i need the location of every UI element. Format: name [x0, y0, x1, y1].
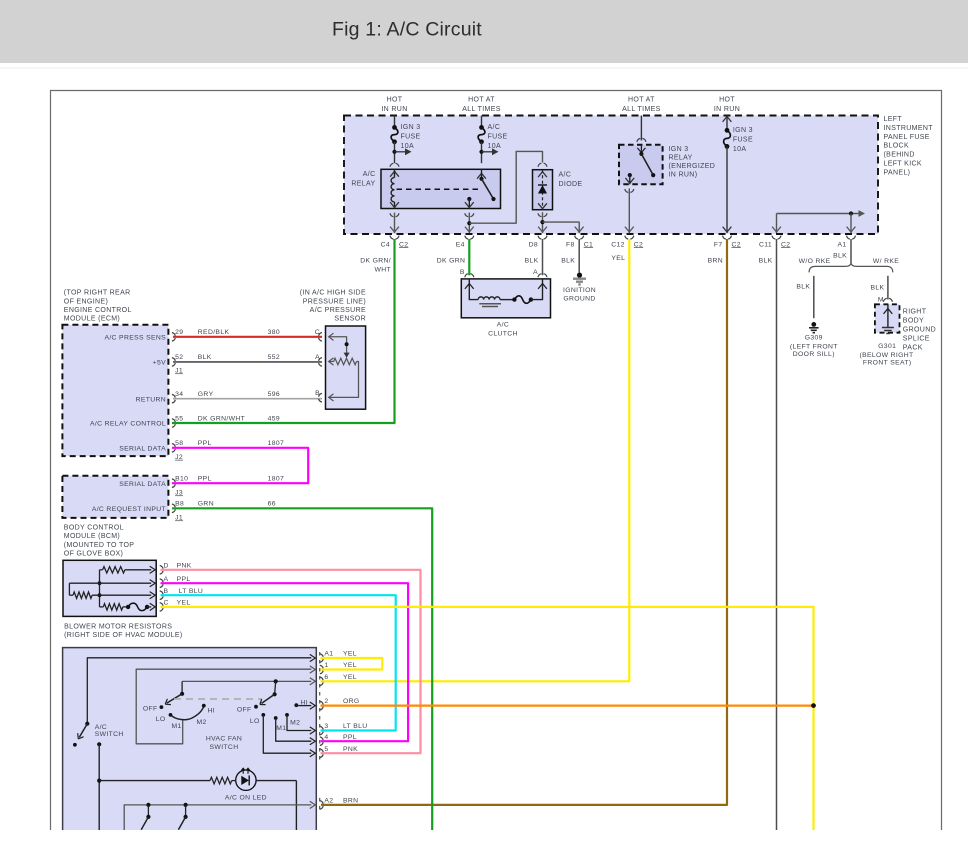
- svg-text:6: 6: [324, 674, 328, 681]
- wire BLK from C11 down (off page): [776, 239, 778, 830]
- svg-text:HI: HI: [208, 707, 216, 714]
- svg-text:10A: 10A: [733, 146, 747, 153]
- svg-text:IGN 3: IGN 3: [733, 127, 753, 134]
- svg-text:F7: F7: [714, 241, 723, 248]
- wire to splice pack: [887, 276, 889, 300]
- defog switch 1 (partial): [141, 803, 150, 830]
- engine control module ECM (dashed box): [62, 325, 168, 456]
- splice pack internal wire: [884, 304, 893, 328]
- svg-text:G309: G309: [805, 335, 823, 342]
- svg-text:1807: 1807: [268, 476, 285, 483]
- node junction E4 to diode branch: [467, 221, 471, 225]
- mechanical link dashed: [174, 698, 262, 700]
- A/C pressure sensor box: [326, 326, 366, 409]
- wire YEL blower C down right side: [161, 607, 814, 830]
- svg-text:MODULE (BCM): MODULE (BCM): [64, 533, 120, 540]
- svg-text:PNK: PNK: [343, 746, 358, 753]
- A/C relay coil: [390, 169, 399, 208]
- svg-text:A: A: [164, 576, 169, 583]
- svg-text:RED/BLK: RED/BLK: [198, 329, 230, 336]
- svg-text:1807: 1807: [268, 440, 285, 447]
- ground G309: [790, 322, 838, 358]
- wire A1 BLK stub: [850, 239, 852, 263]
- svg-text:WHT: WHT: [374, 266, 391, 273]
- wire A1 inside fuse block: [847, 214, 856, 234]
- svg-text:58: 58: [175, 440, 183, 447]
- blower pin labels: [164, 562, 204, 606]
- svg-text:B8: B8: [175, 501, 184, 508]
- svg-text:BLK: BLK: [870, 284, 884, 291]
- svg-text:DIODE: DIODE: [559, 181, 583, 188]
- svg-text:A/C ON LED: A/C ON LED: [225, 795, 267, 802]
- fan switch 1 (left): [160, 681, 206, 719]
- svg-text:ALL TIMES: ALL TIMES: [622, 106, 661, 113]
- fan switch bus to pin 6: [182, 678, 315, 685]
- svg-text:YEL: YEL: [343, 674, 357, 681]
- svg-text:552: 552: [268, 354, 280, 361]
- fan switch 2 position labels: [237, 700, 308, 733]
- svg-text:GRN: GRN: [198, 501, 214, 508]
- svg-text:(IN A/C HIGH SIDE: (IN A/C HIGH SIDE: [300, 290, 366, 297]
- node junction D8 to F8 branch: [540, 220, 544, 224]
- svg-text:BODY CONTROL: BODY CONTROL: [64, 525, 124, 532]
- svg-text:4: 4: [324, 734, 328, 741]
- ECM pin 52 +5V + wire BLK 552: [153, 354, 322, 374]
- svg-text:YEL: YEL: [343, 651, 357, 658]
- svg-text:OFF: OFF: [237, 707, 252, 714]
- svg-text:HOT: HOT: [719, 97, 735, 104]
- HVAC internal wire to pin A1: [87, 654, 315, 723]
- svg-text:66: 66: [268, 501, 276, 508]
- svg-text:W/O RKE: W/O RKE: [799, 258, 831, 265]
- wire LT BLU blower B to HVAC pin 3: [161, 595, 396, 730]
- defog switch 2 (partial): [178, 803, 187, 830]
- svg-text:PRESSURE LINE): PRESSURE LINE): [303, 298, 366, 305]
- ECM pin 58 SERIAL DATA + wire PPL 1807: [119, 440, 284, 461]
- svg-text:380: 380: [268, 329, 280, 336]
- svg-text:(TOP RIGHT REAR: (TOP RIGHT REAR: [64, 290, 131, 297]
- svg-text:SERIAL DATA: SERIAL DATA: [119, 445, 166, 452]
- A/C switch: [73, 722, 124, 747]
- svg-text:ALL TIMES: ALL TIMES: [462, 106, 501, 113]
- svg-text:A2: A2: [324, 798, 333, 805]
- ECM location label: [64, 290, 132, 323]
- svg-text:DK GRN: DK GRN: [437, 257, 466, 264]
- svg-text:LEFT: LEFT: [884, 116, 903, 123]
- svg-text:LO: LO: [156, 716, 166, 723]
- svg-text:W/ RKE: W/ RKE: [873, 258, 899, 265]
- svg-text:RETURN: RETURN: [136, 396, 166, 403]
- svg-text:(RIGHT SIDE OF HVAC MODULE): (RIGHT SIDE OF HVAC MODULE): [64, 632, 182, 639]
- svg-text:FUSE: FUSE: [401, 134, 421, 141]
- HVAC pin labels: [324, 651, 367, 805]
- ECM pin 34 RETURN + wire GRY 596: [136, 391, 322, 403]
- wire PNK blower D to HVAC pin 5: [161, 570, 421, 753]
- svg-text:3: 3: [324, 723, 328, 730]
- svg-text:(MOUNTED TO TOP: (MOUNTED TO TOP: [64, 542, 134, 549]
- fuse F3 IGN 3 FUSE 10A (right): [723, 116, 753, 234]
- svg-text:BLK: BLK: [759, 257, 773, 264]
- svg-text:LT BLU: LT BLU: [179, 588, 204, 595]
- right body ground splice pack (dashed box): [875, 304, 900, 332]
- svg-text:BODY: BODY: [903, 317, 924, 324]
- svg-text:LO: LO: [250, 718, 260, 725]
- svg-text:PPL: PPL: [198, 440, 212, 447]
- svg-text:IN RUN: IN RUN: [714, 106, 740, 113]
- A/C relay switch: [477, 169, 496, 201]
- fan switch 1 position labels: [143, 706, 215, 731]
- ignition ground G2: [563, 273, 596, 303]
- ECM pin 29 A/C PRESS SENS + wire RED/BLK 380: [104, 329, 322, 341]
- lower sub-switch box and wire to pin A2: [124, 801, 315, 830]
- svg-text:HVAC FAN: HVAC FAN: [206, 735, 242, 742]
- blower resistor pin connector arcs: [160, 566, 163, 569]
- svg-text:OFF: OFF: [143, 706, 158, 713]
- svg-text:C12: C12: [611, 241, 625, 248]
- HVAC control head box: [63, 648, 317, 832]
- fan switch frame to pin 1: [136, 666, 315, 744]
- A/C clutch coil circuit: [465, 279, 547, 307]
- wire DK GRN/WHT from C4 to ECM pin 55: [172, 239, 395, 423]
- svg-text:M2: M2: [197, 719, 207, 726]
- svg-text:C2: C2: [732, 241, 741, 248]
- wire YEL loop pin A1 to pin 1: [321, 658, 383, 670]
- svg-text:29: 29: [175, 329, 183, 336]
- svg-text:FRONT SEAT): FRONT SEAT): [863, 359, 912, 366]
- svg-text:PPL: PPL: [198, 476, 212, 483]
- svg-text:PNK: PNK: [177, 562, 192, 569]
- wire HOT AT ALL TIMES into IGN 3 relay: [640, 116, 642, 141]
- fuse block name label: [884, 116, 934, 176]
- blower resistors name label: [64, 623, 182, 639]
- svg-text:DK GRN/WHT: DK GRN/WHT: [198, 415, 245, 422]
- svg-text:J2: J2: [175, 454, 183, 461]
- IGN 3 relay output pin: [625, 173, 634, 184]
- IGN 3 relay top connector arc: [637, 138, 640, 142]
- svg-text:RIGHT: RIGHT: [903, 308, 927, 315]
- svg-text:B: B: [164, 588, 169, 595]
- svg-text:PANEL FUSE: PANEL FUSE: [884, 134, 930, 141]
- svg-text:FUSE: FUSE: [733, 137, 753, 144]
- svg-text:D: D: [164, 562, 169, 569]
- svg-text:IN RUN: IN RUN: [381, 106, 407, 113]
- fuse F2 A/C FUSE 10A: [478, 116, 507, 164]
- svg-text:B10: B10: [175, 476, 188, 483]
- wire from relay output to diode top: [469, 151, 542, 223]
- svg-text:C4: C4: [381, 241, 390, 248]
- svg-text:FUSE: FUSE: [488, 134, 508, 141]
- connector arcs under fuse block: [396, 236, 399, 240]
- A/C relay switch output pin: [465, 197, 474, 209]
- svg-text:M: M: [878, 296, 884, 303]
- clutch connector arcs: [465, 274, 468, 278]
- svg-text:ORG: ORG: [343, 698, 360, 705]
- svg-text:OF GLOVE BOX): OF GLOVE BOX): [64, 551, 123, 558]
- svg-text:5: 5: [324, 746, 328, 753]
- svg-text:C2: C2: [634, 241, 643, 248]
- IGN 3 relay K1 (dashed box): [619, 145, 715, 185]
- svg-text:A/C: A/C: [488, 124, 501, 131]
- splice pack name label: [903, 308, 936, 351]
- svg-text:HOT AT: HOT AT: [468, 97, 495, 104]
- svg-text:BRN: BRN: [343, 798, 358, 805]
- wire branch to F8: [543, 222, 584, 233]
- svg-text:HOT: HOT: [387, 97, 403, 104]
- svg-text:G301: G301: [878, 343, 896, 350]
- sensor connector arcs: [319, 338, 322, 341]
- svg-text:RELAY: RELAY: [351, 181, 375, 188]
- BCM location label: [64, 525, 134, 558]
- A/C on LED branch wire: [97, 742, 210, 830]
- svg-text:BLK: BLK: [833, 252, 847, 259]
- svg-text:GROUND: GROUND: [563, 296, 595, 303]
- svg-text:BLK: BLK: [796, 284, 810, 291]
- svg-text:A1: A1: [837, 241, 846, 248]
- wire ORG HVAC pin 2 to YEL junction: [321, 704, 814, 706]
- fan switch HI contact to pin 2: [296, 702, 315, 709]
- svg-text:(LEFT FRONT: (LEFT FRONT: [790, 344, 838, 351]
- body control module BCM (dashed box): [62, 476, 168, 518]
- IGN 3 relay switch: [637, 145, 655, 178]
- ground G301: [859, 328, 913, 367]
- svg-text:M2: M2: [290, 720, 300, 727]
- svg-text:ENGINE CONTROL: ENGINE CONTROL: [64, 307, 132, 314]
- svg-text:PANEL): PANEL): [884, 169, 911, 176]
- A/C relay coil pin connector: [390, 163, 393, 167]
- svg-text:GROUND: GROUND: [903, 326, 936, 333]
- left instrument panel fuse block (dashed box): [344, 116, 878, 235]
- svg-text:(ENERGIZED: (ENERGIZED: [669, 163, 716, 170]
- wire GRN 66 from BCM down (off page): [172, 508, 432, 830]
- svg-text:C2: C2: [781, 241, 790, 248]
- svg-text:C2: C2: [399, 241, 408, 248]
- LED series resistor: [210, 777, 232, 784]
- A/C relay dashed actuation link: [397, 188, 481, 190]
- svg-text:+5V: +5V: [153, 360, 166, 367]
- svg-text:BLK: BLK: [525, 257, 539, 264]
- svg-text:J1: J1: [175, 367, 183, 374]
- svg-text:OF ENGINE): OF ENGINE): [64, 298, 108, 305]
- svg-text:IGN 3: IGN 3: [401, 124, 421, 131]
- A/C clutch box: [461, 279, 550, 318]
- svg-text:C: C: [164, 600, 169, 607]
- A/C diode D1 box: [533, 170, 583, 210]
- svg-text:C11: C11: [759, 241, 772, 248]
- svg-text:YEL: YEL: [343, 662, 357, 669]
- svg-text:BRN: BRN: [708, 257, 723, 264]
- svg-text:F8: F8: [566, 241, 575, 248]
- BCM pin B10 SERIAL DATA + wire PPL 1807: [119, 476, 284, 497]
- svg-text:BLOWER MOTOR RESISTORS: BLOWER MOTOR RESISTORS: [64, 623, 172, 630]
- svg-text:GRY: GRY: [198, 391, 214, 398]
- IGN 3 relay bottom connector arc: [630, 189, 633, 193]
- ECM pin 55 A/C RELAY CONTROL + wire DK GRN/WHT 459: [90, 415, 280, 427]
- wire D8 inside fuse block: [538, 212, 547, 233]
- svg-text:LT BLU: LT BLU: [343, 723, 368, 730]
- svg-text:A/C PRESS SENS: A/C PRESS SENS: [104, 334, 166, 341]
- splice pack connector arc: [883, 298, 886, 302]
- pressure sensor location label: [300, 290, 366, 323]
- wire BLK from D8 to A/C clutch pin A: [542, 239, 544, 275]
- svg-text:A/C REQUEST INPUT: A/C REQUEST INPUT: [92, 506, 166, 513]
- wire YEL from C12 to HVAC pin 6: [321, 239, 630, 681]
- BCM pin B8 A/C REQUEST INPUT + wire GRN 66: [92, 501, 276, 522]
- svg-text:YEL: YEL: [177, 600, 191, 607]
- wire C4 inside fuse block: [390, 213, 399, 233]
- svg-text:BLK: BLK: [561, 257, 575, 264]
- svg-text:A/C: A/C: [497, 322, 509, 329]
- svg-text:HOT AT: HOT AT: [628, 97, 655, 104]
- bus wire to C11 and A1: [777, 210, 866, 217]
- svg-text:IGNITION: IGNITION: [563, 287, 596, 294]
- wire BRN from F7 to HVAC pin A2: [321, 239, 727, 805]
- svg-text:A: A: [533, 269, 538, 276]
- svg-text:PACK: PACK: [903, 344, 923, 351]
- svg-text:RELAY: RELAY: [669, 155, 693, 162]
- svg-text:INSTRUMENT: INSTRUMENT: [884, 125, 934, 132]
- wire DK GRN from E4 to A/C clutch pin B: [468, 239, 470, 275]
- svg-text:A/C RELAY CONTROL: A/C RELAY CONTROL: [90, 421, 166, 428]
- svg-text:10A: 10A: [488, 143, 502, 150]
- svg-text:A/C: A/C: [559, 172, 572, 179]
- wire to G309: [813, 276, 815, 318]
- svg-text:SENSOR: SENSOR: [334, 316, 366, 323]
- svg-text:(BEHIND: (BEHIND: [884, 152, 915, 159]
- svg-text:BLK: BLK: [198, 354, 212, 361]
- wire C12 inside fuse block: [625, 188, 634, 233]
- svg-text:596: 596: [268, 391, 280, 398]
- svg-text:SWITCH: SWITCH: [210, 744, 239, 751]
- svg-text:1: 1: [324, 662, 328, 669]
- svg-text:PPL: PPL: [343, 734, 357, 741]
- svg-text:SERIAL DATA: SERIAL DATA: [119, 481, 166, 488]
- A/C relay U1 box: [351, 169, 500, 208]
- svg-text:D8: D8: [529, 241, 538, 248]
- svg-text:M1: M1: [276, 725, 286, 732]
- svg-text:459: 459: [268, 415, 280, 422]
- HVAC FAN SWITCH label: [206, 735, 242, 750]
- fuse F1 IGN 3 FUSE 10A: [391, 116, 420, 164]
- fan switch M2 contact to pin 3: [287, 715, 315, 734]
- svg-text:A/C: A/C: [363, 171, 376, 178]
- A/C on LED D2: [232, 768, 256, 790]
- svg-text:A/C PRESSURE: A/C PRESSURE: [310, 307, 366, 314]
- svg-text:34: 34: [175, 391, 183, 398]
- sensor potentiometer: [329, 333, 359, 401]
- svg-text:DOOR SILL): DOOR SILL): [793, 351, 835, 358]
- svg-text:Fig 1: A/C Circuit: Fig 1: A/C Circuit: [332, 19, 482, 41]
- node ORG/YEL junction: [811, 703, 816, 708]
- fan switch 2 (right): [254, 679, 298, 720]
- svg-text:CLUTCH: CLUTCH: [488, 331, 518, 338]
- svg-text:A1: A1: [324, 651, 333, 658]
- svg-text:B: B: [460, 269, 465, 276]
- svg-text:M1: M1: [172, 723, 182, 730]
- svg-text:52: 52: [175, 354, 183, 361]
- svg-text:DK GRN/: DK GRN/: [360, 257, 391, 264]
- svg-text:2: 2: [324, 698, 328, 705]
- svg-text:(BELOW RIGHT: (BELOW RIGHT: [859, 352, 913, 359]
- svg-text:BLOCK: BLOCK: [884, 143, 909, 150]
- brace W/O RKE / W/ RKE: [809, 262, 893, 272]
- LED output wire down: [256, 781, 296, 830]
- svg-text:IGN 3: IGN 3: [669, 146, 689, 153]
- connector arcs below A/C relay: [396, 213, 399, 217]
- svg-text:LEFT KICK: LEFT KICK: [884, 161, 922, 168]
- svg-text:MODULE (ECM): MODULE (ECM): [64, 316, 120, 323]
- svg-text:PPL: PPL: [177, 576, 191, 583]
- svg-text:55: 55: [175, 415, 183, 422]
- wire PPL blower A to HVAC pin 4: [161, 583, 409, 741]
- svg-text:A/C: A/C: [95, 724, 107, 731]
- A/C diode connector arcs: [538, 163, 541, 167]
- svg-text:10A: 10A: [401, 143, 415, 150]
- fan switch M1 contact to pin 4: [276, 718, 316, 745]
- svg-text:C1: C1: [584, 241, 593, 248]
- svg-text:SWITCH: SWITCH: [95, 731, 124, 738]
- A/C diode symbol: [538, 170, 547, 210]
- HVAC pin connector arcs: [319, 652, 321, 760]
- wire E4 inside fuse block: [465, 213, 474, 233]
- svg-text:J1: J1: [175, 514, 183, 521]
- svg-text:IN RUN): IN RUN): [669, 172, 698, 179]
- svg-text:SPLICE: SPLICE: [903, 335, 930, 342]
- svg-text:E4: E4: [456, 241, 465, 248]
- blower resistor network: [69, 566, 155, 610]
- blower motor resistors box: [63, 560, 156, 616]
- fan switch LO contact to pin 5: [263, 715, 315, 757]
- header bar: [0, 0, 968, 63]
- wire C11 inside fuse block: [772, 214, 781, 234]
- wire PPL 1807 loop ECM to BCM: [172, 448, 308, 483]
- svg-text:YEL: YEL: [611, 255, 625, 262]
- svg-text:J3: J3: [175, 489, 183, 496]
- wire BLK from F8 to ignition ground: [578, 239, 580, 273]
